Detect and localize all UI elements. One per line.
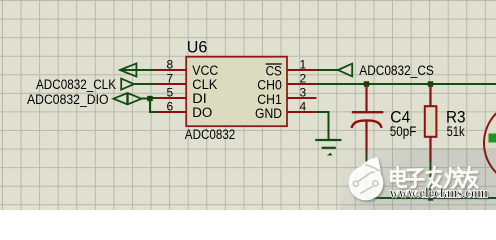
svg-text:51k: 51k [447, 124, 465, 139]
svg-text:ADC0832_DIO: ADC0832_DIO [27, 92, 109, 107]
pin name CLK [192, 77, 217, 92]
watermark Chinese text zi [406, 170, 424, 188]
svg-text:DO: DO [192, 105, 212, 120]
svg-text:U6: U6 [187, 37, 208, 56]
pin 6 lead (DO) [156, 111, 186, 113]
LED D1 body (partial at edge) [484, 101, 496, 185]
svg-text:4: 4 [300, 100, 307, 114]
resistor R3 body [425, 106, 437, 137]
net wire CH0 row [316, 83, 496, 85]
pin 4 lead (GND) [288, 111, 317, 113]
svg-text:8: 8 [167, 58, 174, 72]
pin number 6 [167, 100, 174, 114]
watermark Chinese text you [463, 167, 478, 187]
wire junction to pin 5 [150, 97, 157, 99]
resistor R3 top lead [429, 84, 431, 106]
node label ADC0832_DIO [27, 92, 109, 107]
ground symbol [315, 140, 341, 156]
svg-text:DI: DI [192, 91, 207, 106]
svg-text:7: 7 [167, 72, 174, 86]
watermark tint [340, 148, 496, 210]
pin 1 lead (CS) [288, 69, 317, 71]
wire pin4 to ground [316, 112, 328, 140]
node label ADC0832_CLK [36, 77, 116, 92]
svg-text:CLK: CLK [192, 77, 217, 92]
IC U6 reference designator [187, 37, 208, 56]
reference R3 [446, 108, 466, 127]
pin 5 lead (DI) [156, 97, 186, 99]
svg-text:CH1: CH1 [257, 92, 282, 107]
pin number 1 [300, 58, 307, 72]
pin name CH0 [257, 78, 282, 93]
pin number 7 [167, 72, 174, 86]
resistor R3 bottom lead [429, 137, 431, 162]
pin name VCC [192, 63, 218, 78]
wire junction down to DO row [150, 99, 157, 113]
pin name CS with overbar [266, 63, 282, 78]
svg-text:6: 6 [167, 100, 174, 114]
watermark logo elecfans [349, 157, 384, 200]
svg-text:ADC0832_CLK: ADC0832_CLK [36, 77, 116, 92]
svg-text:1: 1 [300, 58, 307, 72]
value 50pF [390, 124, 417, 139]
svg-text:www.elecfans.com: www.elecfans.com [390, 185, 488, 201]
junction DIO node [147, 96, 152, 101]
svg-text:2: 2 [300, 72, 307, 86]
watermark Chinese text dian [391, 167, 406, 187]
watermark Chinese text shao [445, 168, 464, 188]
svg-text:CS: CS [266, 63, 282, 78]
pin number 3 [300, 86, 307, 100]
svg-text:VCC: VCC [192, 63, 218, 78]
watermark url text [390, 185, 488, 201]
svg-text:50pF: 50pF [390, 124, 417, 139]
pin number 2 [300, 72, 307, 86]
wire pin1 to CS terminal [316, 69, 338, 71]
IC U6 part value ADC0832 [185, 127, 236, 142]
pin 3 lead (CH1) [288, 97, 317, 99]
watermark Chinese text fa [427, 167, 442, 188]
svg-text:GND: GND [255, 106, 282, 121]
pin number 8 [167, 58, 174, 72]
op-amp U1? no : IC U6 body [186, 57, 287, 127]
svg-text:ADC0832_CS: ADC0832_CS [359, 63, 434, 78]
bidirectional terminal DIO (diamond) [114, 93, 142, 105]
svg-text:3: 3 [300, 86, 307, 100]
svg-text:ADC0832: ADC0832 [185, 127, 236, 142]
pin number 4 [300, 100, 307, 114]
pin number 5 [167, 86, 174, 100]
wire C4 down to rail [366, 153, 368, 198]
pin name DO [192, 105, 212, 120]
wire DIO terminal to junction [142, 98, 151, 100]
pin name CH1 [257, 92, 282, 107]
terminal arrow on pin 8 [120, 63, 156, 76]
pin 2 lead (CH0) [288, 83, 317, 85]
svg-text:5: 5 [167, 86, 174, 100]
pin name GND [255, 106, 282, 121]
pin name DI [192, 91, 207, 106]
value 51k [447, 124, 465, 139]
terminal arrow CS [338, 64, 352, 77]
pin 8 lead (VCC) [156, 69, 186, 71]
junction at R3 top [428, 81, 433, 86]
node label ADC0832_CS [359, 63, 434, 78]
reference C4 [390, 108, 410, 127]
capacitor C4 plates [352, 112, 384, 128]
ground rail wire [367, 197, 496, 199]
junction rail at R3 [428, 195, 433, 200]
terminal triangle CLK [121, 79, 156, 90]
LED D1 green chip [489, 134, 496, 143]
junction at C4 top [364, 81, 369, 86]
svg-text:CH0: CH0 [257, 78, 282, 93]
capacitor C4 bottom lead [365, 120, 367, 153]
wire R3 down to rail [430, 162, 432, 198]
pin 7 lead (CLK) [156, 83, 186, 85]
capacitor C4 top lead [365, 84, 367, 112]
